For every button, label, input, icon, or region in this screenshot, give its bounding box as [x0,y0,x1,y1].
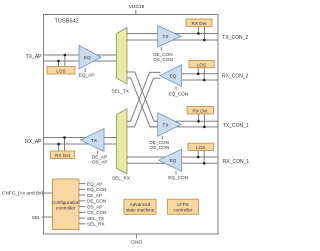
wire config output tick SEL_TX [79,217,86,219]
wire LOS stubs (CON_1) [197,151,199,158]
node dots TX_CON_2 [197,32,200,35]
wire TX crossover diagonals (SEL_TX to TX CON_1) [127,72,158,121]
wire EQ_CON control stub (CON_1) [175,171,177,175]
svg-text:controller: controller [174,207,193,212]
svg-text:EQ_CON: EQ_CON [168,175,188,180]
wire SEL input [42,216,53,218]
svg-text:RX_AP: RX_AP [25,139,42,145]
wire TX_CON_1 differential pair [154,120,218,122]
wire LOS stubs (AP side) [58,61,60,67]
svg-text:SEL_RX: SEL_RX [112,175,131,180]
svg-text:OS_CON: OS_CON [87,210,106,215]
RX Det block (CON_2) [186,19,212,27]
LOS detector block (AP side) [47,67,75,75]
mux SEL_TX [117,28,127,84]
LOS detector block (CON_2) [189,60,214,67]
svg-text:RX Det: RX Det [55,153,71,158]
svg-text:OS_AP: OS_AP [87,204,102,209]
node dots RX_AP [57,143,60,146]
wire TX_AP differential pair [44,54,117,56]
node junction dots on TX_AP pair [57,60,60,63]
svg-text:RX Det: RX Det [192,109,208,114]
svg-text:SEL_RX: SEL_RX [87,222,105,227]
LFPS controller block [168,199,199,214]
svg-text:SEL_TX: SEL_TX [111,88,129,93]
svg-text:EQ_CON: EQ_CON [87,187,106,192]
wire RX Det stubs (CON_1) [198,114,200,121]
wire RX_CON_1 differential pair [127,156,218,158]
wire config output tick DE_CON [79,200,86,202]
svg-text:TX: TX [163,122,170,127]
wire EQ_CON control stub (CON_2) [175,86,177,90]
svg-text:controller: controller [56,205,76,210]
node dots RX_CON_2 [197,73,200,76]
wire RX_CON_2 differential pair [170,73,218,75]
op-amp EQ (CON_2 equalizer) [160,65,182,87]
svg-text:TX_CON_2: TX_CON_2 [222,35,248,41]
wire TX_CON_2 differential pair [127,33,218,35]
wire config output tick EQ_AP [79,183,86,185]
buffer TX (AP driver, points left) [80,129,104,152]
pin VDD18 [135,10,137,15]
svg-text:Advanced: Advanced [130,202,151,207]
pin GND [136,234,138,239]
svg-text:RX Det: RX Det [191,21,207,26]
wire DE/OS control stub (AP) [97,151,99,154]
svg-text:RX_CON_1: RX_CON_1 [223,159,250,165]
wire CNFG input [42,192,53,194]
svg-text:SEL_TX: SEL_TX [87,216,104,221]
wire config output tick OS_AP [79,206,86,208]
wire config output tick DE_AP [79,194,86,196]
svg-text:EQ: EQ [170,74,177,79]
svg-text:EQ_AP: EQ_AP [87,181,102,186]
svg-text:state machine: state machine [126,207,155,212]
wire DE/OS control stub (CON_1) [161,136,163,139]
svg-text:VDD18: VDD18 [129,4,145,10]
svg-text:RX_CON_2: RX_CON_2 [222,74,249,80]
svg-text:TX: TX [91,138,98,143]
wire RX_AP differential pair [44,137,117,139]
wire config output tick OS_CON [79,211,86,213]
svg-text:SEL: SEL [32,215,41,221]
mux SEL_RX [117,109,127,174]
buffer TX (CON_1 driver) [158,113,181,137]
wire RX Det stubs (CON_2) [197,27,199,34]
wire LOS stubs (CON_2) [197,68,199,74]
op-amp EQ (CON_1 equalizer) [159,149,182,171]
svg-text:DE_CON: DE_CON [87,199,106,204]
svg-text:CNFG_[Ax and Bx]: CNFG_[Ax and Bx] [2,191,43,197]
svg-text:EQ: EQ [84,55,91,60]
LOS detector block (CON_1) [188,143,214,150]
op-amp EQ (AP receiver equalizer) [79,45,101,69]
svg-text:LOS: LOS [196,145,205,150]
svg-text:EQ_AP: EQ_AP [79,72,95,77]
svg-text:TX_AP: TX_AP [26,54,43,60]
node dots RX_CON_1 [197,156,200,159]
Configuration controller block [53,179,80,230]
svg-text:TX_CON_1: TX_CON_1 [223,123,249,129]
svg-text:LOS: LOS [56,69,65,74]
svg-text:TX: TX [163,34,170,39]
buffer TX (CON_2 driver) [158,26,181,47]
svg-text:DE_AP: DE_AP [87,193,102,198]
svg-text:Configuration: Configuration [52,200,80,205]
Advanced state machine block [124,199,156,214]
svg-text:OS_AP: OS_AP [92,159,108,164]
svg-text:LFPS: LFPS [177,202,189,207]
wire RX Det stubs (AP side) [58,144,60,151]
svg-text:TUSB542: TUSB542 [55,19,79,25]
svg-text:LOS: LOS [197,62,206,67]
main box U1 TUSB542 [44,15,219,235]
wire RX crossover diagonals (EQ CON_2 to SEL_RX) [127,72,161,121]
svg-text:OS_CON: OS_CON [153,57,173,62]
svg-text:GND: GND [131,239,142,245]
svg-text:OS_CON: OS_CON [149,145,169,150]
RX Det block (AP side) [51,151,75,159]
svg-text:EQ: EQ [170,158,177,163]
wire config output tick SEL_RX [79,223,86,225]
svg-text:EQ_CON: EQ_CON [169,92,189,97]
wire EQ_AP control stub [84,69,86,73]
wire config output tick EQ_CON [79,188,86,190]
RX Det block (CON_1) [187,106,214,114]
wire DE/OS control stub (CON_2) [160,47,162,51]
node dots TX_CON_1 [197,120,200,123]
